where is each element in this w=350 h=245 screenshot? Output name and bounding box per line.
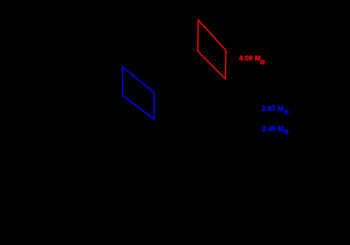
sun symbol subscript of first blue label xyxy=(285,110,289,114)
svg-text:2.97 M: 2.97 M xyxy=(262,106,284,113)
blue parallelogram (instability-strip crossing of 2.97/2.45 Msun track) xyxy=(122,67,154,119)
svg-text:4.06 M: 4.06 M xyxy=(239,55,261,62)
svg-text:2.45 M: 2.45 M xyxy=(262,126,284,133)
red parallelogram (instability-strip crossing of 4.06 Msun track) xyxy=(198,20,226,79)
sun symbol subscript of second blue label xyxy=(284,130,288,134)
sun symbol subscript of red label xyxy=(261,60,265,64)
